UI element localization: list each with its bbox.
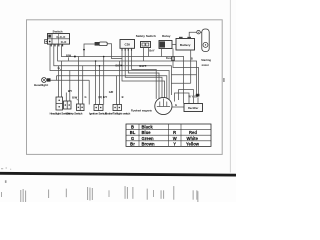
svg-text:B/Y: B/Y bbox=[68, 89, 73, 93]
battery BT1 bbox=[176, 37, 195, 50]
safety switch SW2 bbox=[141, 42, 151, 48]
CDI pin wire 1 bbox=[122, 48, 165, 98]
motor cable terminal blob bbox=[196, 94, 200, 97]
label B/W with arrow (upper) bbox=[66, 54, 72, 61]
svg-text:motor: motor bbox=[202, 63, 209, 67]
wire relay to battery bbox=[172, 44, 176, 46]
wire terminal to motor bbox=[200, 31, 202, 33]
table text column 2 names bbox=[142, 125, 155, 147]
svg-text:Relay: Relay bbox=[162, 34, 171, 38]
wire safety switch pin left bbox=[143, 48, 145, 62]
svg-text:B/W: B/W bbox=[72, 95, 78, 99]
wire relay to fuse to rail bbox=[173, 49, 199, 95]
svg-text:O–O: O–O bbox=[61, 40, 66, 44]
connector J1 (2 stacked) bbox=[56, 97, 63, 110]
CDI pin wire 4 bbox=[132, 48, 157, 99]
junction dot bus2 bbox=[95, 60, 97, 62]
connector J4 bbox=[94, 105, 103, 111]
wire mesh horizontal mid bbox=[171, 82, 190, 84]
svg-text:Flywheel magneto: Flywheel magneto bbox=[131, 110, 153, 113]
wire switch pin1 to bus4 bbox=[50, 44, 169, 100]
wire color table bbox=[126, 124, 211, 146]
wire drop conn1 a bbox=[58, 66, 60, 97]
svg-text:BL: BL bbox=[130, 130, 136, 135]
connector plug dark half bbox=[95, 42, 100, 46]
wire drop conn4 b bbox=[99, 66, 101, 105]
svg-text:Green: Green bbox=[142, 136, 155, 141]
wire drop conn5 c bbox=[119, 61, 121, 105]
border frame of schematic bbox=[27, 20, 223, 155]
svg-text:R: R bbox=[173, 130, 176, 135]
svg-text:G: G bbox=[131, 136, 134, 141]
connector J2 bbox=[64, 101, 72, 109]
svg-text:W: W bbox=[173, 136, 177, 141]
svg-text:Brake/Taillight switch: Brake/Taillight switch bbox=[105, 111, 130, 115]
junction dot on bus1 bbox=[74, 56, 76, 58]
wire drop conn5 b bbox=[116, 76, 118, 105]
wire drop conn4 a bbox=[95, 61, 97, 105]
wire drop conn2 b bbox=[69, 71, 71, 102]
svg-text:Safety Switch: Safety Switch bbox=[136, 34, 156, 38]
wire battery negative drop bbox=[190, 50, 192, 83]
wire drop conn3 b bbox=[82, 66, 84, 104]
flywheel magneto G1 bbox=[155, 97, 172, 114]
wire drop mid c bbox=[103, 57, 105, 105]
ignition switch side plug bbox=[45, 40, 48, 44]
switch pin stubs bbox=[51, 44, 62, 46]
svg-text:Blue: Blue bbox=[142, 130, 152, 135]
wire plug to CDI area bbox=[107, 44, 122, 59]
svg-text:White: White bbox=[187, 136, 199, 141]
connector plug light half bbox=[99, 42, 107, 46]
wire relay bottom to bus1 bbox=[161, 49, 163, 57]
svg-text:Fuse: Fuse bbox=[166, 56, 173, 60]
wire switch pin3 to bus2 bbox=[58, 44, 197, 95]
wire key feed to CDI plug bbox=[84, 44, 95, 57]
connector J3 bbox=[77, 104, 85, 111]
ignition switch S1 bbox=[48, 34, 70, 47]
junction dot bus3 bbox=[99, 65, 101, 67]
wire drop mid b bbox=[88, 80, 90, 104]
fuse F1 bbox=[171, 57, 174, 60]
svg-text:Rectifier: Rectifier bbox=[188, 106, 198, 110]
svg-text:B/W: B/W bbox=[66, 54, 72, 58]
junction dot bus1 right bbox=[103, 56, 105, 58]
junction dot below CDI right bbox=[145, 65, 147, 67]
table text column 1 codes bbox=[130, 125, 136, 147]
svg-text:Ignition Switch: Ignition Switch bbox=[89, 111, 107, 115]
rotated caption text marks below rule bbox=[1, 186, 198, 202]
svg-text:(O) B/Y: (O) B/Y bbox=[98, 95, 107, 99]
bleed-through mark right of frame bbox=[223, 78, 224, 82]
scan mark below rule left bbox=[5, 180, 7, 183]
headlight connector blob bbox=[47, 78, 51, 81]
junction dot below CDI bbox=[121, 65, 123, 67]
svg-text:O–O–O: O–O–O bbox=[56, 35, 65, 39]
wire drop conn1 b bbox=[61, 61, 63, 97]
page separator black rule bbox=[0, 172, 236, 177]
svg-text:Brown: Brown bbox=[142, 141, 155, 146]
svg-text:Y: Y bbox=[173, 141, 176, 146]
wire switch pin4 to bus1 bbox=[61, 44, 183, 104]
svg-text:G: G bbox=[175, 103, 177, 107]
starter relay K1 bbox=[159, 41, 172, 49]
wire headlight feed bbox=[51, 76, 57, 81]
svg-text:Yellow: Yellow bbox=[186, 141, 200, 146]
CDI unit U1 bbox=[120, 40, 135, 51]
CDI pin wire 2 bbox=[125, 48, 162, 98]
rectifier top wires bbox=[175, 90, 199, 104]
svg-text:B: B bbox=[122, 95, 124, 99]
svg-text:Br/Y: Br/Y bbox=[149, 49, 155, 53]
wire tail feed upper bbox=[57, 76, 167, 99]
starting motor label bbox=[201, 58, 211, 67]
page edge line (right, faint) bbox=[229, 0, 231, 173]
connector J5 bbox=[113, 105, 122, 111]
wire magneto to rectifier bbox=[172, 106, 184, 108]
wire safety switch pin right bbox=[148, 48, 150, 57]
svg-text:G/R: G/R bbox=[109, 90, 114, 94]
headlight lamp bbox=[42, 78, 47, 83]
svg-text:CDI: CDI bbox=[125, 43, 130, 47]
svg-text:Safety Switch: Safety Switch bbox=[66, 111, 82, 115]
svg-text:B/W: B/W bbox=[115, 63, 121, 67]
svg-text:Red: Red bbox=[189, 130, 197, 135]
svg-text:Switch: Switch bbox=[53, 30, 63, 34]
table text column 3 codes bbox=[173, 130, 177, 146]
svg-text:B: B bbox=[191, 56, 193, 60]
svg-text:G: G bbox=[84, 95, 86, 99]
svg-text:Black: Black bbox=[142, 125, 154, 130]
svg-text:Battery: Battery bbox=[180, 43, 191, 47]
wire drop conn3 a bbox=[78, 57, 80, 105]
table text column 4 names bbox=[186, 130, 200, 146]
label B with arrow bbox=[58, 66, 61, 70]
svg-text:Br: Br bbox=[130, 141, 135, 146]
wire battery plus to motor top bbox=[189, 32, 197, 37]
wire mesh horizontal upper bbox=[171, 74, 196, 76]
rectifier U2 bbox=[184, 104, 203, 112]
label B/W mid with arrow bbox=[72, 95, 78, 100]
junction dot key feed bbox=[83, 49, 85, 51]
svg-text:Headlight: Headlight bbox=[34, 83, 48, 87]
wire switch pin2 to bus3 bbox=[54, 44, 172, 95]
CDI pin wire 3 bbox=[128, 48, 159, 98]
wire drop conn2 a bbox=[65, 93, 67, 102]
svg-text:Starting: Starting bbox=[201, 58, 211, 62]
scan noise above rule bbox=[1, 168, 11, 170]
starting motor M1 bbox=[202, 29, 209, 52]
terminal circle bbox=[197, 31, 200, 34]
svg-text:B/W: B/W bbox=[139, 64, 145, 68]
svg-text:B: B bbox=[131, 125, 134, 130]
